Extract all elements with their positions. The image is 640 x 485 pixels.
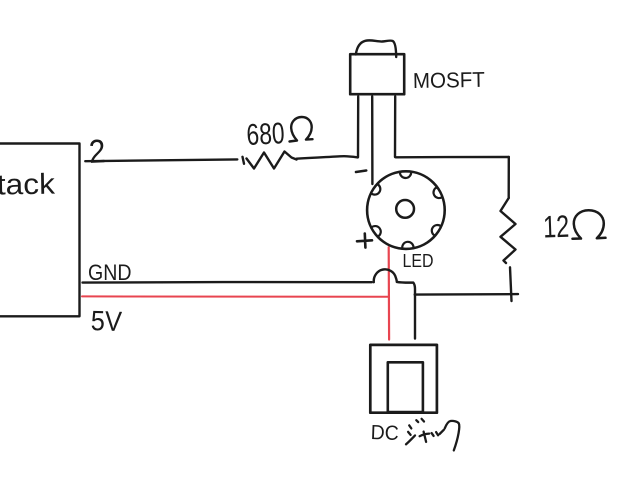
svg-text:680: 680: [246, 117, 286, 152]
LED chip notch upper-right: [434, 187, 443, 198]
wire 12 ohm top vertical: [508, 157, 510, 198]
plus sign LED anode: [357, 234, 372, 248]
wire 5V red horizontal: [82, 295, 389, 297]
DC jack outer box: [370, 345, 437, 413]
label katakana small ya: [420, 432, 430, 442]
label katakana ku: [440, 421, 460, 450]
DC jack inner box: [388, 362, 423, 412]
svg-text:MOSFT: MOSFT: [413, 68, 485, 93]
LED chip notch lower-right: [432, 225, 441, 236]
label 680 ohm omega: [290, 117, 313, 142]
wire GND horizontal: [83, 281, 372, 284]
wire red vertical LED plus to DC jack: [388, 247, 391, 339]
LED ring body: [367, 171, 445, 249]
M5Stack board box: [0, 144, 80, 317]
LED chip notch lower-left: [371, 226, 380, 237]
svg-text:LED: LED: [403, 250, 434, 271]
MOSFET source leg: [394, 97, 397, 158]
svg-text:DC: DC: [370, 421, 399, 445]
label katakana ji strokes: [406, 425, 415, 444]
svg-text:GND: GND: [88, 260, 132, 285]
label 12 ohm omega: [573, 210, 606, 239]
LED center hole: [396, 200, 414, 218]
wire GND to DC jack: [397, 282, 415, 339]
MOSFET drain leg to LED minus: [371, 97, 374, 185]
wire MOSFET source to resistor 12 top: [396, 156, 509, 159]
resistor R 12 zigzag: [501, 198, 516, 263]
MOSFET gate leg: [357, 97, 360, 158]
svg-text:12: 12: [543, 209, 570, 245]
svg-text:5V: 5V: [90, 305, 122, 337]
LED chip notch upper-left: [371, 184, 380, 195]
LED chip notch bottom: [402, 242, 413, 249]
LED chip notch top: [400, 172, 411, 178]
DC jack bottom inner edge: [388, 411, 423, 414]
label katakana ji dakuten dots: [416, 419, 424, 422]
wire GND hump over red: [374, 269, 397, 282]
MOSFET U1 body: [350, 54, 404, 94]
wire pin2 to resistor: [85, 159, 237, 161]
wire resistor to MOSFET gate: [297, 156, 358, 159]
resistor R 680 zigzag: [243, 152, 297, 169]
svg-text:2: 2: [88, 132, 106, 170]
wire 12 ohm bottom return: [415, 293, 518, 296]
svg-text:tack: tack: [0, 169, 56, 202]
minus sign LED cathode: [356, 171, 366, 173]
MOSFET tab top: [356, 40, 396, 57]
resistor R 12 lower lead: [510, 267, 512, 301]
label katakana small tsu: [432, 432, 439, 436]
